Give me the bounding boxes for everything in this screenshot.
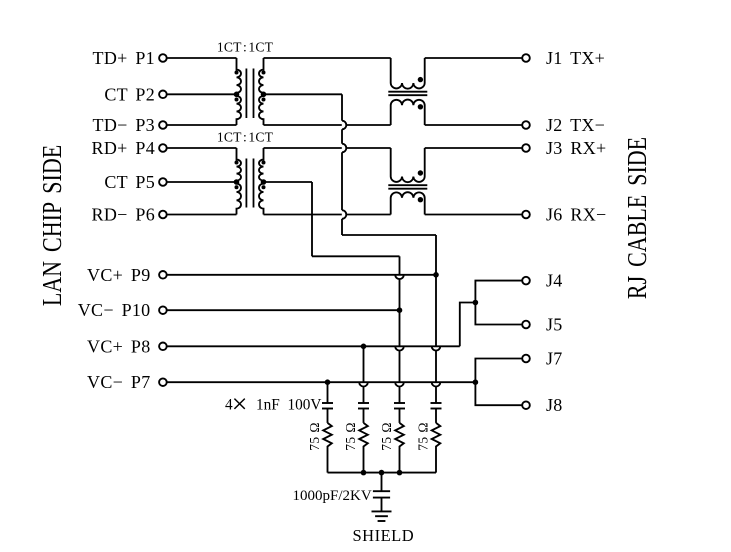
wire T1 secondary CT horizontal xyxy=(264,93,343,95)
wire branch-3 column P8 to P7 crossing xyxy=(399,351,401,383)
pin J4 terminal (J4) xyxy=(522,277,530,285)
wire VC+ P8 line to corner xyxy=(167,345,460,347)
ground (SHIELD) xyxy=(372,510,392,512)
wire choke L1 bottom-right to J2 xyxy=(425,124,522,126)
junction dot: P10 line meets branch-3 column xyxy=(397,307,403,313)
pin P2 terminal (CT P2) xyxy=(159,91,167,99)
svg-text:LAN CHIP SIDE: LAN CHIP SIDE xyxy=(38,145,68,306)
wire J7/J8 bracket xyxy=(475,359,522,406)
wire VC+ P9 line xyxy=(167,274,436,276)
hop: branch-4 over VC- P7 line xyxy=(432,382,441,386)
capacitor C2 1nF 100V xyxy=(358,402,369,404)
wire P6 to T2 primary bottom xyxy=(167,214,236,216)
wire P4 to T2 primary top xyxy=(167,147,236,149)
pin P8 terminal (VC+ P8) xyxy=(159,343,167,351)
junction dot on bottom rail at shield column xyxy=(379,470,385,476)
resistor R1 75Ω xyxy=(323,423,332,473)
junction dot: P7 line meets J7/J8 bracket xyxy=(473,379,479,385)
wire T2 secondary top to choke L2 top-left (hop gap at crossing) xyxy=(264,147,342,149)
pin J5 terminal (J5) xyxy=(522,321,530,329)
capacitor C1 1nF 100V xyxy=(322,402,333,404)
svg-text:J4: J4 xyxy=(546,271,563,291)
wire P1 to T1 primary top xyxy=(167,57,236,59)
pin J3 terminal (J3 RX+) xyxy=(522,144,530,152)
wire bottom rail to capacitor C5 xyxy=(381,473,383,492)
svg-text:RJ CABLE SIDE: RJ CABLE SIDE xyxy=(623,137,653,299)
wire B first vertical xyxy=(311,182,313,256)
pin P9 terminal (VC+ P9) xyxy=(159,271,167,279)
transformer T2 1CT:1CT (RX pair) xyxy=(237,148,242,215)
svg-text:VC− P10: VC− P10 xyxy=(78,300,151,320)
hop: branch-4 over VC+ P8 line xyxy=(432,346,441,350)
pin J1 terminal (J1 TX+) xyxy=(522,54,530,62)
pin J7 terminal (J7) xyxy=(522,355,530,363)
svg-text:J8: J8 xyxy=(546,395,563,415)
resistor R4 75Ω xyxy=(432,423,441,473)
hop: branch-3 over VC+ P8 line xyxy=(395,346,404,350)
svg-text:75 Ω: 75 Ω xyxy=(307,422,322,451)
wire branch-2 column P7 to capacitor C2 xyxy=(363,387,365,404)
wire T1 secondary top to choke L1 top-left xyxy=(264,57,391,59)
label 75Ω for R1 xyxy=(307,422,322,451)
label 75Ω for R2 xyxy=(343,422,358,451)
svg-text:VC+ P8: VC+ P8 xyxy=(87,336,150,356)
wire branch-3 column P9 to P10 junction xyxy=(399,279,401,310)
wire T1 secondary bottom to choke L1 bottom-left (hop gap at crossing) xyxy=(264,124,342,126)
wire A down branch-4 column to P9 junction xyxy=(435,235,437,275)
wire B horizontal jog xyxy=(312,255,400,257)
pin J8 terminal (J8) xyxy=(522,401,530,409)
svg-text:RD− P6: RD− P6 xyxy=(92,205,155,225)
transformer T1 1CT:1CT (TX pair) xyxy=(237,58,242,125)
wire branch-4 column P9 to P8 crossing xyxy=(435,275,437,347)
resistor R3 75Ω xyxy=(395,423,404,473)
wire branch-4 column P8 to P7 crossing xyxy=(435,351,437,383)
pin J2 terminal (J2 TX-) xyxy=(522,121,530,129)
svg-text:J1 TX+: J1 TX+ xyxy=(546,48,605,68)
svg-text:J2 TX−: J2 TX− xyxy=(546,115,605,135)
svg-text:J7: J7 xyxy=(546,349,563,369)
svg-text:J6 RX−: J6 RX− xyxy=(546,205,606,225)
wire branch-3 column P7 to capacitor C3 xyxy=(399,387,401,404)
junction dot: P9 line meets branch-4 column xyxy=(433,272,439,278)
pin J6 terminal (J6 RX-) xyxy=(522,211,530,219)
label: LAN CHIP SIDE (rotated) xyxy=(38,145,68,306)
svg-text:J5: J5 xyxy=(546,315,563,335)
pin P4 terminal (RD+ P4) xyxy=(159,144,167,152)
pin P7 terminal (VC- P7) xyxy=(159,378,167,386)
wire capacitor C5 to ground xyxy=(381,498,383,512)
hop: branch-3 over VC- P7 line xyxy=(395,382,404,386)
wire branch-1 column from P7 junction to capacitor C1 xyxy=(327,382,329,403)
junction dot on bottom rail at branch-2 xyxy=(361,470,367,476)
resistor R2 75Ω xyxy=(359,423,368,473)
svg-text:RD+ P4: RD+ P4 xyxy=(92,138,155,158)
wire A horizontal to branch-4 column xyxy=(342,234,436,236)
capacitor C4 1nF 100V xyxy=(431,402,442,404)
pin P10 terminal (VC- P10) xyxy=(159,306,167,314)
svg-text:SHIELD: SHIELD xyxy=(353,526,415,545)
junction dot on bottom rail at branch-3 xyxy=(397,470,403,476)
wire choke L1 top-right to J1 xyxy=(425,57,522,59)
hop: branch-2 over VC- P7 line xyxy=(359,382,368,386)
svg-text:1nF 100V: 1nF 100V xyxy=(256,397,321,414)
junction dot: P8 line meets branch-2 column xyxy=(361,344,367,350)
wire T2 secondary bottom to choke L2 bottom-left (hop gap at crossing) xyxy=(264,214,342,216)
svg-text:1CT : 1CT: 1CT : 1CT xyxy=(217,130,274,145)
svg-text:1000pF/2KV: 1000pF/2KV xyxy=(293,488,372,504)
svg-text:75 Ω: 75 Ω xyxy=(343,422,358,451)
common-mode choke L2 (RX) xyxy=(391,148,425,182)
svg-text:VC− P7: VC− P7 xyxy=(87,372,150,392)
junction dot: P7 line meets branch-1 column xyxy=(325,379,331,385)
wire VC- P10 line xyxy=(167,309,399,311)
wire P3 to T1 primary bottom xyxy=(167,124,236,126)
capacitor C3 1nF 100V xyxy=(394,402,405,404)
wire A vertical with hops over three rows xyxy=(341,94,343,120)
wire branch-4 column P7 to capacitor C4 xyxy=(435,387,437,404)
svg-text:VC+ P9: VC+ P9 xyxy=(87,265,150,285)
svg-text:1CT : 1CT: 1CT : 1CT xyxy=(217,40,274,55)
label 75Ω for R3 xyxy=(379,422,394,451)
svg-text:TD− P3: TD− P3 xyxy=(93,115,155,135)
wire P8 corner up and to J4/J5 bracket xyxy=(460,303,476,347)
wire P2 to T1 primary center tap xyxy=(167,93,236,95)
pin P5 terminal (CT P5) xyxy=(159,178,167,186)
wire choke L2 bottom-right to J6 xyxy=(425,214,522,216)
label: RJ CABLE SIDE (rotated) xyxy=(623,137,653,299)
svg-text:CT P2: CT P2 xyxy=(104,84,155,104)
wire T2 secondary CT horizontal xyxy=(264,181,313,183)
common-mode choke L1 (TX) xyxy=(391,58,425,89)
wire bottom rail joining R1-R4 xyxy=(328,472,437,474)
wire VC- P7 line xyxy=(167,381,475,383)
wire branch-2 column from P8 junction xyxy=(363,346,365,382)
svg-text:J3 RX+: J3 RX+ xyxy=(546,138,606,158)
wire B down branch-3 column to P9 crossing xyxy=(399,256,401,275)
wire P5 to T2 primary center tap xyxy=(167,181,236,183)
pin P3 terminal (TD- P3) xyxy=(159,121,167,129)
svg-text:CT P5: CT P5 xyxy=(104,172,155,192)
svg-text:TD+ P1: TD+ P1 xyxy=(93,48,155,68)
wire J4/J5 bracket xyxy=(475,281,522,325)
junction dot: feed meets J4/J5 bracket xyxy=(473,300,479,306)
hop: branch-3 over VC+ P9 line xyxy=(395,275,404,279)
wire branch-3 column P10 to P8 crossing xyxy=(399,310,401,346)
svg-text:75 Ω: 75 Ω xyxy=(379,422,394,451)
svg-text:4: 4 xyxy=(225,397,233,414)
pin P1 terminal (TD+ P1) xyxy=(159,54,167,62)
pin P6 terminal (RD- P6) xyxy=(159,211,167,219)
svg-text:75 Ω: 75 Ω xyxy=(415,422,430,451)
capacitor C5 1000pF/2KV xyxy=(373,490,390,492)
wire choke L2 top-right to J3 xyxy=(425,147,522,149)
label 75Ω for R4 xyxy=(415,422,430,451)
